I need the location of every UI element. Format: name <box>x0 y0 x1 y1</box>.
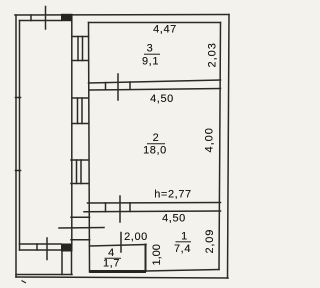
bottom inner line right section <box>146 270 219 272</box>
lower left column line b <box>71 252 73 275</box>
balcony door top cap <box>71 216 90 218</box>
svg-text:1,7: 1,7 <box>103 258 120 270</box>
bottom thick wall under room 4 <box>90 270 147 273</box>
svg-text:4,50: 4,50 <box>162 213 186 225</box>
room 1 fraction line <box>176 241 192 243</box>
bottom inner-left line <box>16 274 72 276</box>
wall poche balcony bottom <box>61 244 73 252</box>
wall 3/2 jamb a <box>105 83 107 90</box>
wall 3/2 jamb b <box>129 82 131 89</box>
balcony bottom rail top line <box>20 243 62 245</box>
window W3 mullion a <box>76 160 78 184</box>
svg-text:1,00: 1,00 <box>151 244 163 265</box>
wall 3/2 tick <box>117 74 119 100</box>
rail tick 1 <box>16 97 21 99</box>
svg-text:2: 2 <box>153 132 160 144</box>
left balcony rail outer <box>15 15 17 277</box>
exterior wall inner line (left of rooms) <box>89 23 90 273</box>
window W3 bottom cap <box>71 183 89 185</box>
window W1 bottom cap <box>72 60 89 62</box>
window W2 mullion b <box>81 98 83 124</box>
room 4 top wall <box>90 245 147 247</box>
svg-text:9,1: 9,1 <box>142 56 159 68</box>
outer right wall <box>228 15 230 279</box>
outer top wall line <box>15 14 229 17</box>
svg-text:4,47: 4,47 <box>153 24 177 36</box>
room 4 dimension tick <box>120 233 122 253</box>
room 4 right wall <box>145 245 147 272</box>
inner right wall <box>219 23 221 270</box>
svg-text:4,00: 4,00 <box>204 127 216 152</box>
svg-text:1: 1 <box>181 231 188 243</box>
balcony door leaf line <box>59 227 104 230</box>
svg-text:2,09: 2,09 <box>204 229 216 254</box>
window W1 top cap <box>72 36 89 38</box>
exterior wall outer line (left of rooms) <box>71 15 73 244</box>
svg-text:4,50: 4,50 <box>150 93 174 105</box>
svg-text:3: 3 <box>147 43 154 55</box>
room 4 fraction line <box>105 257 122 259</box>
svg-text:18,0: 18,0 <box>143 145 167 157</box>
room 3 fraction line <box>144 53 160 55</box>
window W2 top cap <box>72 97 89 99</box>
bottom rail tick <box>46 238 48 260</box>
dimension tick top rail <box>45 7 47 30</box>
inner top wall line <box>89 22 221 24</box>
wall rooms 3/2 bottom line <box>90 89 221 91</box>
wall poche top <box>61 14 73 21</box>
wall 2/1 jamb a <box>105 203 107 212</box>
svg-text:2,00: 2,00 <box>124 231 148 243</box>
balcony top rail inner line <box>20 20 62 22</box>
wall rooms 2/1 top line <box>88 202 221 205</box>
wall 2/1 tick <box>119 196 121 222</box>
svg-text:2,03: 2,03 <box>207 42 219 67</box>
bottom rail divider a <box>36 244 38 250</box>
window W3 top cap <box>71 159 89 161</box>
window W1 mullion b <box>82 37 84 61</box>
room 2 fraction line <box>147 143 165 145</box>
window W2 bottom cap <box>72 123 89 125</box>
left balcony rail inner <box>19 21 21 251</box>
wall 2/1 jamb b <box>129 203 131 212</box>
svg-text:h=2,77: h=2,77 <box>154 189 192 201</box>
svg-text:7,4: 7,4 <box>174 243 191 255</box>
balcony top rail divider <box>30 15 32 21</box>
wall rooms 2/1 bottom line <box>84 210 221 213</box>
window W3 mullion b <box>80 160 82 184</box>
balcony bottom rail bottom line <box>20 249 62 251</box>
bottom outer line <box>16 277 228 278</box>
lower left column line a <box>61 252 63 275</box>
window W2 mullion a <box>77 98 79 124</box>
stray pen mark bottom left <box>22 281 27 284</box>
rail tick 2 <box>16 170 21 172</box>
wall rooms 3/2 top line <box>89 80 221 83</box>
window W1 mullion a <box>77 37 79 61</box>
balcony door bottom cap <box>71 239 90 241</box>
